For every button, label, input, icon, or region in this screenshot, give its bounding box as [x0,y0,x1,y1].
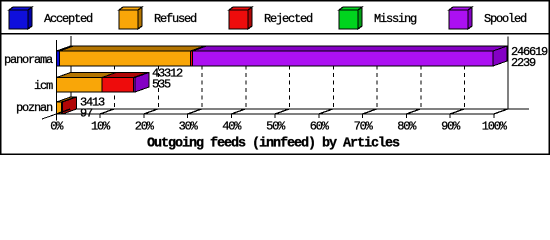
origin depth diagonal [42,114,56,119]
svg-text:10%: 10% [91,120,111,134]
bar panorama segment orange front face [60,51,191,66]
bar icm segment purple front face [134,78,136,93]
legend cube orange [119,7,142,29]
bar poznan segment red top face [62,97,77,102]
legend separator line [1,33,549,35]
x-axis tick 90% [450,109,464,118]
back x-axis line [70,108,529,110]
bar icm segment orange front face [57,78,103,93]
svg-text:0%: 0% [50,120,64,134]
bar panorama segment purple top face [193,46,508,51]
svg-text:Spooled: Spooled [484,12,527,26]
0% back axis line [70,36,72,109]
bar icm segment red top face [102,73,148,78]
bar panorama segment orange top face [60,46,205,51]
front x-axis line [56,113,494,115]
bar panorama right side face [493,46,507,66]
svg-text:30%: 30% [179,120,199,134]
dashed gridlines 10%-90% [114,66,116,110]
bar icm right side face [135,73,149,93]
bar poznan segment orange top face [57,97,76,102]
bar poznan right side face [63,97,77,114]
svg-text:535: 535 [152,78,171,92]
bar panorama segment red front face [191,51,193,66]
x-axis tick 100% [494,109,508,118]
x-axis tick 0% [56,109,70,118]
svg-text:80%: 80% [397,120,417,134]
svg-text:Outgoing feeds (innfeed) by Ar: Outgoing feeds (innfeed) by Articles [147,137,400,152]
legend cube purple [449,7,472,29]
svg-text:20%: 20% [135,120,155,134]
svg-text:70%: 70% [354,120,374,134]
svg-text:100%: 100% [482,120,508,134]
bar icm segment red front face [102,78,134,93]
legend cube red [229,7,252,29]
x-axis tick 60% [319,109,333,118]
svg-text:50%: 50% [266,120,286,134]
outer border [1,1,550,155]
svg-text:60%: 60% [310,120,330,134]
svg-text:Missing: Missing [374,12,417,26]
x-axis tick 70% [363,109,377,118]
front y-axis line [55,40,57,121]
legend cube blue [9,7,32,29]
svg-text:40%: 40% [222,120,242,134]
svg-text:Refused: Refused [154,12,197,26]
svg-text:poznan: poznan [16,101,53,115]
svg-text:icm: icm [34,79,53,93]
bar poznan segment orange front face [57,102,62,114]
svg-text:90%: 90% [441,120,461,134]
x-axis tick 50% [275,109,289,118]
100% back gridline [507,37,509,110]
bar poznan segment red front face [62,102,63,114]
bar icm segment purple top face [134,73,150,78]
bar panorama segment blue top face [57,46,74,51]
bar panorama segment purple front face [193,51,494,66]
x-axis tick 80% [406,109,420,118]
x-axis tick 20% [144,109,158,118]
bar panorama segment red top face [191,46,207,51]
svg-text:Rejected: Rejected [264,12,313,26]
legend cube green [339,7,362,29]
bar panorama segment blue front face [57,51,60,66]
svg-text:97: 97 [80,107,93,121]
svg-text:Accepted: Accepted [44,12,93,26]
x-axis tick 10% [100,109,114,118]
svg-text:panorama: panorama [4,53,53,67]
svg-text:2239: 2239 [511,56,536,70]
bar icm segment orange top face [57,73,117,78]
x-axis tick 30% [188,109,202,118]
x-axis tick 40% [231,109,245,118]
